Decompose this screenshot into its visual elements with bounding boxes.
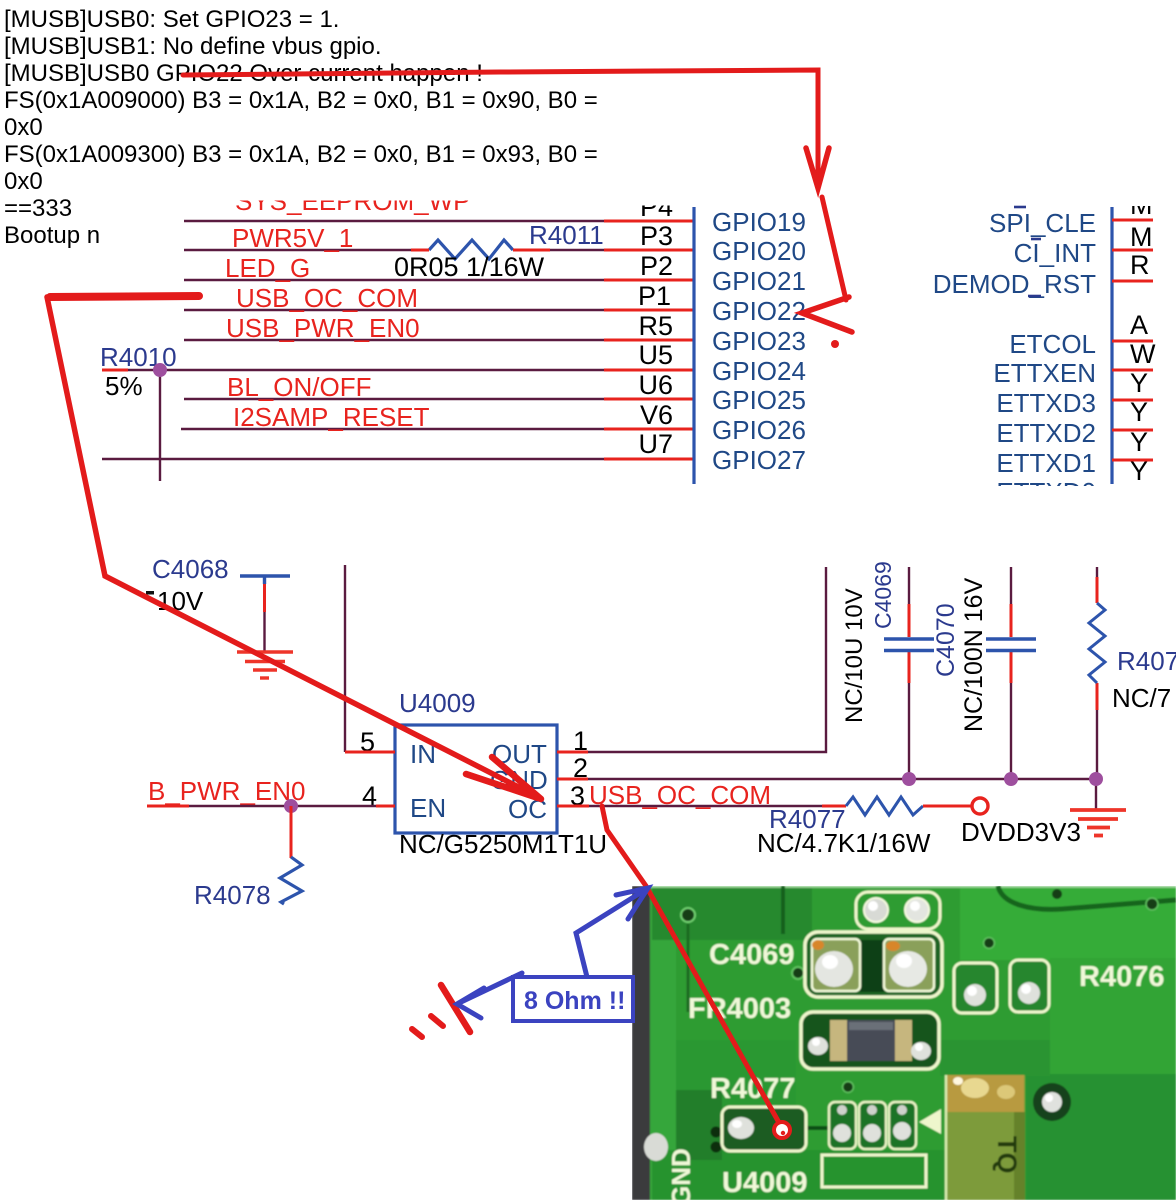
svg-text:W: W: [1130, 339, 1156, 369]
svg-text:B_PWR_EN0: B_PWR_EN0: [148, 776, 306, 806]
trio pad 1: [829, 1102, 856, 1149]
pin 4 stub: [376, 805, 395, 808]
svg-text:ETCOL: ETCOL: [1009, 329, 1096, 359]
component R4077 outline: [722, 1107, 806, 1151]
resistor R4078 zigzag (clipped): [280, 857, 302, 904]
resistor R4011 zigzag: [429, 240, 513, 259]
svg-text:P3: P3: [640, 221, 673, 251]
left IC pin wires (GPIO rows): [102, 221, 604, 481]
annotation: probe circle on pad: [774, 1122, 790, 1138]
svg-text:NC/4.7K1/16W: NC/4.7K1/16W: [757, 828, 931, 858]
junction node (C4069 / bus): [902, 772, 916, 786]
svg-text:==333: ==333: [4, 195, 72, 222]
pin numbers right IC (clipped letters): [1130, 190, 1156, 486]
annotation: thick line from USB_OC_COM: [50, 296, 199, 297]
copper trace (top right curve): [998, 886, 1176, 909]
svg-text:CI_INT: CI_INT: [1014, 238, 1096, 268]
wire U7/GPIO27 row: [102, 458, 604, 460]
svg-text:U4009: U4009: [399, 688, 476, 718]
resistor R4077 zigzag: [846, 797, 923, 815]
via (top): [1052, 889, 1062, 899]
screenshot clip covers: [225, 176, 1164, 516]
svg-text:NC/100N 16V: NC/100N 16V: [960, 577, 988, 732]
annotation: 8 Ohm callout box: [513, 977, 633, 1021]
via (right): [984, 938, 995, 949]
svg-text:Y: Y: [1130, 368, 1148, 398]
EN wire: [189, 805, 376, 807]
svg-text:P1: P1: [638, 281, 671, 311]
svg-text:C4068: C4068: [152, 554, 229, 584]
svg-text:ETTXD3: ETTXD3: [996, 388, 1096, 418]
console log text: [4, 6, 598, 249]
vertical wire from R4010 junction: [159, 370, 161, 481]
svg-text:5%: 5%: [105, 371, 143, 401]
annotation: long arrow to U4009 OC pin: [47, 297, 541, 799]
svg-text:0R05 1/16W: 0R05 1/16W: [394, 252, 545, 282]
via (top left): [681, 908, 695, 922]
svg-text:C4070: C4070: [932, 603, 960, 677]
wire U6/GPIO25 row (BL_ON/OFF): [184, 398, 604, 400]
component FB outline: [801, 1012, 939, 1069]
svg-text:U7: U7: [638, 429, 673, 459]
resistor R4076 zigzag: [1089, 603, 1105, 683]
wire P3/GPIO20 row (PWR5V_1): [184, 249, 604, 251]
svg-text:U6: U6: [638, 370, 673, 400]
small resistor pad B: [1010, 960, 1049, 1012]
svg-text:GPIO26: GPIO26: [712, 415, 806, 445]
resistor R4076 wires: [1096, 567, 1098, 779]
svg-text:BL_ON/OFF: BL_ON/OFF: [227, 372, 371, 402]
connector pads: [864, 898, 888, 922]
resistor R4077 left stub: [822, 805, 846, 808]
wire P1/GPIO22 row (USB_OC_COM): [184, 309, 604, 311]
svg-text:GPIO25: GPIO25: [712, 385, 806, 415]
annotation: red dot: [831, 340, 839, 348]
svg-text:Y: Y: [1130, 397, 1148, 427]
capacitor C4068 plate: [240, 576, 290, 584]
open terminal DVDD3V3: [972, 798, 988, 814]
ground symbol (C4068): [237, 652, 293, 678]
copper trace (from via): [687, 924, 690, 1012]
svg-text:USB_OC_COM: USB_OC_COM: [589, 780, 771, 810]
svg-text:DEMOD_RST: DEMOD_RST: [933, 269, 1096, 299]
junction node (EN): [284, 799, 298, 813]
svg-text:V6: V6: [640, 400, 673, 430]
pin 5 stub: [345, 751, 395, 754]
svg-text:GPIO23: GPIO23: [712, 326, 806, 356]
svg-text:ETTXEN: ETTXEN: [993, 358, 1096, 388]
svg-text:C4069: C4069: [709, 939, 794, 971]
U4009 pin labels: [410, 739, 548, 824]
svg-text:R4011: R4011: [529, 220, 604, 250]
trio pad 3: [889, 1102, 916, 1149]
svg-text:LED_G: LED_G: [225, 253, 310, 283]
svg-text:NC/10U 10V: NC/10U 10V: [841, 588, 868, 723]
OUT wire: [588, 567, 826, 752]
svg-text:GPIO24: GPIO24: [712, 356, 806, 386]
svg-text:ETTXD1: ETTXD1: [996, 448, 1096, 478]
copper trace (vertical top): [781, 886, 785, 934]
junction node (R4010): [153, 363, 167, 377]
svg-text:[MUSB]USB1: No define vbus gpi: [MUSB]USB1: No define vbus gpio.: [4, 33, 382, 60]
wire R5/GPIO23 row (USB_PWR_EN0): [184, 339, 604, 341]
photo dark border strip: [632, 886, 652, 1200]
via (right edge): [1146, 898, 1158, 910]
svg-text:GPIO21: GPIO21: [712, 266, 806, 296]
pin 1 stub: [557, 751, 588, 754]
svg-text:GND: GND: [666, 1148, 696, 1200]
B_PWR_EN0 stub: [147, 805, 189, 808]
svg-text:[MUSB]USB0: Set GPIO23 = 1.: [MUSB]USB0: Set GPIO23 = 1.: [4, 6, 339, 33]
overbars on active-low names: [1014, 207, 1041, 296]
svg-text:GPIO27: GPIO27: [712, 445, 806, 475]
IC U4009 box: [395, 725, 557, 833]
svg-text:EN: EN: [410, 793, 446, 823]
svg-text:I2SAMP_RESET: I2SAMP_RESET: [233, 402, 430, 432]
svg-text:GPIO19: GPIO19: [712, 207, 806, 237]
svg-text:GPIO20: GPIO20: [712, 236, 806, 266]
wire to ground: [263, 612, 265, 651]
copper trace (to triangle): [806, 1126, 830, 1130]
svg-text:Y: Y: [1130, 427, 1148, 457]
wire P2/GPIO21 row (LED_G): [184, 279, 604, 281]
R4010 pin stub: [102, 369, 128, 372]
round pad right: [1033, 1083, 1071, 1121]
R4077 left pad: [728, 1117, 754, 1139]
capacitor C4070 wires: [1010, 567, 1012, 779]
component C4069 outline: [805, 932, 942, 997]
port names GPIO19-GPIO27: [712, 207, 806, 475]
svg-text:U4009: U4009: [722, 1167, 807, 1199]
svg-text:NC/7: NC/7: [1112, 683, 1171, 713]
left IC body edge: [692, 207, 695, 484]
pin 2 stub: [557, 778, 588, 781]
svg-text:R4076: R4076: [1117, 646, 1176, 676]
svg-text:C4069: C4069: [870, 561, 896, 629]
svg-text:FS(0x1A009300) B3 = 0x1A, B2 =: FS(0x1A009300) B3 = 0x1A, B2 = 0x0, B1 =…: [4, 141, 598, 168]
svg-text:R4076: R4076: [1079, 961, 1164, 993]
empty silk outline bottom: [822, 1155, 926, 1187]
port names right IC: [933, 208, 1096, 507]
via (left of C4069): [792, 967, 804, 979]
ground symbol (bus): [1070, 810, 1126, 836]
svg-text:PWR5V_1: PWR5V_1: [232, 223, 353, 253]
pin 3 stub: [557, 805, 589, 808]
svg-text:M: M: [1130, 222, 1153, 252]
USB_OC_COM wire: [589, 805, 822, 807]
svg-text:FS(0x1A009000) B3 = 0x1A, B2 =: FS(0x1A009000) B3 = 0x1A, B2 = 0x0, B1 =…: [4, 87, 598, 114]
svg-text:U5: U5: [638, 340, 673, 370]
svg-text:R4078: R4078: [194, 880, 271, 910]
annotation: blue arrow to slash: [457, 973, 522, 1018]
left IC red pin stubs: [102, 221, 694, 459]
capacitor C4070 plates: [986, 639, 1036, 651]
solder blob bottom-left: [644, 1133, 668, 1161]
TQ component body: [946, 1075, 1025, 1200]
wire P4/GPIO19 row: [184, 220, 604, 222]
capacitor C4068 pin wire: [263, 584, 266, 612]
svg-text:SPI_CLE: SPI_CLE: [989, 208, 1096, 238]
svg-text:USB_PWR_EN0: USB_PWR_EN0: [226, 313, 420, 343]
pad holes (left pair): [711, 1127, 722, 1138]
resistor R4077 right stub: [923, 805, 971, 808]
right IC red pin stubs: [1112, 220, 1153, 460]
wire V6/GPIO26 row (I2SAMP_RESET): [181, 428, 604, 430]
capacitor C4069 wires: [908, 567, 910, 779]
FB chip body: [830, 1020, 912, 1061]
pin numbers left IC: [638, 192, 673, 459]
C4069 right pad: [884, 939, 934, 991]
via (mid): [843, 1082, 854, 1093]
svg-text:8 Ohm !!: 8 Ohm !!: [524, 987, 625, 1015]
GND bus wire: [588, 779, 1096, 809]
trio pad 2: [859, 1102, 886, 1149]
annotation: arrow from OC pin to PCB photo pad: [602, 806, 782, 1128]
R4078 pin wire: [290, 806, 293, 858]
svg-text:R5: R5: [638, 311, 673, 341]
annotation: blue arrow to PCB corner: [576, 888, 648, 977]
right IC body edge: [1110, 207, 1113, 484]
svg-text:Y: Y: [1130, 456, 1148, 486]
junction node (R4076 / bus): [1089, 772, 1103, 786]
svg-text:Bootup n: Bootup n: [4, 222, 100, 249]
svg-text:P2: P2: [640, 251, 673, 281]
svg-text:0x0: 0x0: [4, 168, 43, 195]
capacitor C4069 plates: [884, 639, 934, 651]
svg-text:TQ: TQ: [992, 1136, 1022, 1174]
svg-text:GPIO22: GPIO22: [712, 296, 806, 326]
small resistor pad A: [954, 963, 997, 1013]
C4069 left pad: [812, 939, 860, 991]
svg-text:0x0: 0x0: [4, 114, 43, 141]
connector outline (top): [856, 892, 940, 929]
svg-text:R: R: [1130, 250, 1150, 280]
value fragment tick: [146, 591, 154, 595]
svg-text:USB_OC_COM: USB_OC_COM: [236, 283, 418, 313]
vertical wire to U4009 pin5: [344, 565, 346, 752]
svg-text:A: A: [1130, 310, 1148, 340]
junction node (C4070 / bus): [1004, 772, 1018, 786]
annotation: red slash symbol: [412, 985, 470, 1037]
svg-text:FR4003: FR4003: [688, 993, 791, 1025]
FB solder blobs: [808, 1037, 828, 1055]
resistor R4011 red pin stubs: [411, 249, 550, 252]
svg-text:DVDD3V3: DVDD3V3: [961, 817, 1081, 847]
annotation: underline + arrow to GPIO22 pin: [183, 70, 852, 332]
wire U5/GPIO24 row: [128, 369, 604, 371]
svg-text:NC/G5250M1T1U: NC/G5250M1T1U: [399, 829, 607, 859]
svg-text:ETTXD2: ETTXD2: [996, 418, 1096, 448]
white triangle marker: [919, 1109, 941, 1134]
pcb base laminate: [650, 886, 1176, 1200]
